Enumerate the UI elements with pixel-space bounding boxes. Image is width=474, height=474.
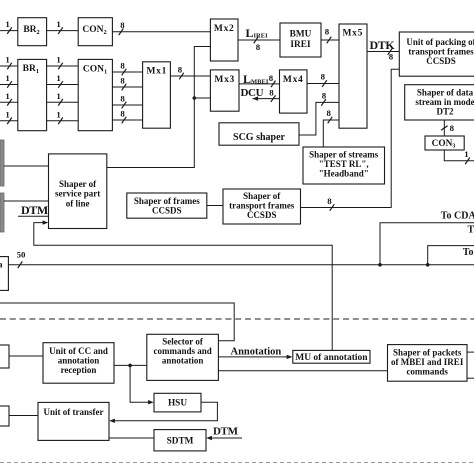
svg-text:service part: service part — [55, 189, 100, 199]
node bus junction 1 and wire To CDAU — [378, 211, 474, 267]
svg-text:CCSDS: CCSDS — [247, 210, 277, 220]
svg-text:Shaper of packets: Shaper of packets — [393, 347, 462, 357]
svg-text:8: 8 — [120, 94, 125, 104]
svg-text:Annotation: Annotation — [231, 346, 282, 357]
node junction to Mx3 — [193, 96, 211, 100]
wire selector to shaper of packets — [218, 370, 387, 372]
svg-text:commands: commands — [406, 366, 448, 376]
wire input 3 to BR1 — [0, 91, 18, 106]
svg-text:CON2: CON2 — [82, 25, 106, 36]
svg-text:8: 8 — [120, 61, 125, 71]
wire CON3 to right edge — [444, 149, 474, 164]
wire transport frames to unit of packing — [301, 69, 400, 211]
svg-text:of line: of line — [66, 198, 90, 208]
svg-text:LMBEI: LMBEI — [243, 72, 269, 86]
wire shaper of packets output 2 — [467, 377, 474, 379]
svg-text:stream in mode: stream in mode — [415, 97, 474, 107]
wire CON2 to Mx2 — [112, 20, 210, 35]
svg-text:DCU: DCU — [241, 87, 264, 99]
block BR2 — [18, 18, 47, 46]
svg-text:CCSDS: CCSDS — [152, 205, 182, 215]
svg-text:reception: reception — [61, 365, 97, 375]
wire SDTM to unit of transfer — [109, 437, 154, 439]
wire from left edge to selector — [0, 303, 234, 341]
connector bar lower — [0, 193, 4, 232]
svg-text:1: 1 — [5, 91, 9, 101]
wire upper bar to service shaper — [4, 165, 49, 167]
svg-text:IREI: IREI — [290, 40, 311, 50]
svg-text:1: 1 — [464, 149, 468, 159]
block shaper of packets of MBEI and IREI commands — [388, 345, 468, 382]
svg-text:commands and: commands and — [153, 346, 211, 356]
block cut-off left source — [0, 257, 8, 291]
svg-text:CCSDS: CCSDS — [426, 56, 456, 66]
svg-text:To CDAU: To CDAU — [441, 211, 474, 222]
block unit of CC and annotation reception — [43, 343, 114, 384]
wire Mx2 to BMU IREI, net L_IREI — [238, 26, 280, 52]
wire Mx4 to Mx5 — [307, 72, 339, 87]
block Mx4 — [280, 70, 308, 113]
wire feedback from MU of annotation to service shaper — [34, 220, 332, 350]
node bus junction 2 and wire To right — [426, 246, 474, 267]
wire input 1 to BR1 — [0, 55, 18, 70]
svg-text:annotation: annotation — [162, 356, 204, 366]
svg-text:Shaper of: Shaper of — [59, 179, 97, 189]
block cut-off left input A — [0, 345, 9, 368]
svg-text:8: 8 — [120, 76, 125, 86]
block SDTM — [154, 430, 206, 451]
wire 50-wide bus — [8, 250, 474, 269]
block SCG shaper — [219, 123, 299, 145]
svg-text:1: 1 — [5, 73, 9, 83]
svg-text:HSU: HSU — [168, 399, 187, 409]
node junction to HSU and wire — [128, 364, 153, 405]
svg-text:Mx5: Mx5 — [343, 28, 364, 38]
svg-text:Mx4: Mx4 — [283, 75, 304, 85]
wire DT2 to CON3 — [441, 120, 455, 136]
block Mx5 — [339, 24, 367, 128]
wire shaper of streams to Mx5 — [323, 108, 339, 147]
block shaper of transport frames CCSDS — [223, 189, 301, 224]
svg-text:Unit of transfer: Unit of transfer — [44, 407, 104, 417]
wire BR1 to CON1 line 1 — [47, 55, 79, 70]
block MU of annotation — [293, 350, 370, 363]
svg-text:1: 1 — [56, 55, 60, 65]
svg-text:8: 8 — [450, 123, 455, 133]
block selector of commands and annotation — [147, 334, 219, 380]
block shaper of data stream in mode DT2 — [405, 85, 474, 120]
wire input 2 to BR1 — [0, 73, 18, 88]
wire unit of CC to selector — [114, 364, 147, 366]
wire shaper of packets output 1 — [467, 351, 474, 353]
wire BR1 to CON1 line 2 — [47, 73, 79, 88]
block HSU — [154, 393, 201, 412]
svg-text:1: 1 — [56, 73, 60, 83]
svg-text:1: 1 — [5, 109, 9, 119]
wire left input A to unit of CC — [9, 355, 43, 357]
svg-text:annotation: annotation — [58, 355, 100, 365]
wire BR1 to CON1 line 4 — [47, 109, 79, 124]
svg-text:DTM: DTM — [21, 203, 48, 217]
wire bottom dashed separator — [0, 462, 474, 464]
wire CON1 to Mx1 line 3 — [112, 94, 142, 109]
block Mx1 — [143, 62, 171, 128]
svg-text:8: 8 — [120, 109, 125, 119]
svg-text:Unit of CC and: Unit of CC and — [49, 346, 108, 356]
wire Mx5 to unit of packing, net DTK — [367, 38, 399, 62]
svg-text:CON3: CON3 — [432, 139, 456, 150]
svg-text:8: 8 — [120, 20, 125, 30]
wire Mx1 to Mx3 — [170, 64, 210, 79]
svg-text:8: 8 — [269, 87, 274, 97]
wire BR1 to CON1 line 3 — [47, 91, 79, 106]
svg-text:BMU: BMU — [290, 29, 312, 39]
block Mx2 — [210, 19, 238, 61]
wire DTM input — [18, 203, 49, 217]
svg-text:1: 1 — [56, 91, 60, 101]
svg-text:DTM: DTM — [213, 426, 239, 438]
svg-text:1: 1 — [56, 19, 60, 29]
block cut-off left input B — [0, 406, 9, 426]
connector bar upper — [0, 140, 4, 186]
svg-text:SCG shaper: SCG shaper — [233, 132, 286, 143]
svg-text:CON1: CON1 — [83, 64, 107, 75]
svg-text:transport frames: transport frames — [408, 47, 474, 57]
wire service-shaper output to Mx2 — [107, 47, 211, 168]
svg-text:8: 8 — [269, 73, 274, 83]
wire input to BR2 — [0, 19, 18, 34]
svg-text:Mx1: Mx1 — [147, 67, 168, 77]
block shaper of streams — [303, 147, 385, 184]
block shaper of frames CCSDS — [127, 193, 207, 218]
svg-text:8: 8 — [326, 108, 331, 118]
svg-text:LIREI: LIREI — [246, 26, 269, 40]
svg-text:1: 1 — [5, 19, 9, 29]
wire dashed separator — [0, 318, 474, 320]
block CON3 — [425, 136, 464, 150]
svg-text:8: 8 — [178, 64, 183, 74]
svg-text:DT2: DT2 — [436, 107, 454, 117]
svg-text:1: 1 — [5, 55, 9, 65]
wire DCU output of Mx4 — [241, 87, 280, 102]
wire annotation to MU of annotation — [218, 346, 292, 359]
svg-text:"Headband": "Headband" — [319, 169, 369, 179]
svg-text:Selector of: Selector of — [162, 337, 204, 347]
svg-text:Mx3: Mx3 — [214, 75, 235, 85]
block CON1 — [78, 59, 112, 130]
svg-text:transport frames: transport frames — [229, 201, 295, 211]
svg-text:"TEST RL",: "TEST RL", — [319, 159, 369, 169]
wire Mx3 to Mx4, net L_MBEI — [239, 72, 280, 87]
svg-text:Shaper of: Shaper of — [243, 191, 281, 201]
wire input 4 to BR1 — [0, 109, 18, 124]
svg-text:DTK: DTK — [370, 38, 396, 52]
wire CON1 to Mx1 line 1 — [112, 61, 142, 76]
svg-text:8: 8 — [256, 42, 261, 52]
svg-text:8: 8 — [327, 196, 332, 206]
svg-text:To: To — [463, 247, 474, 258]
wire BR2 to CON2 — [47, 19, 79, 34]
svg-text:MU of annotation: MU of annotation — [295, 353, 368, 363]
wire BMU IREI to Mx5 — [321, 27, 339, 44]
svg-text:8: 8 — [321, 72, 326, 82]
wire left input B to unit of transfer — [9, 415, 38, 417]
block Mx3 — [210, 70, 239, 111]
wire SCG shaper to Mx5 — [299, 91, 339, 135]
svg-text:of MBEI and IREI: of MBEI and IREI — [391, 357, 464, 367]
svg-text:Shaper of streams: Shaper of streams — [309, 150, 379, 160]
svg-text:SDTM: SDTM — [167, 437, 194, 447]
block CON2 — [78, 18, 112, 46]
wire DTM input to SDTM — [206, 426, 242, 441]
svg-text:T: T — [468, 224, 474, 235]
wire CON1 to Mx1 line 4 — [112, 109, 142, 124]
svg-text:8: 8 — [325, 27, 330, 37]
svg-text:Mx2: Mx2 — [214, 24, 235, 34]
svg-text:8: 8 — [322, 91, 327, 101]
svg-text:Shaper of data: Shaper of data — [417, 88, 474, 98]
svg-text:50: 50 — [17, 250, 26, 260]
svg-text:Unit of packing of: Unit of packing of — [406, 37, 474, 47]
svg-text:8: 8 — [389, 52, 394, 62]
block unit of transfer — [38, 402, 109, 440]
block shaper of service part of line — [49, 154, 107, 229]
svg-text:Shaper of frames: Shaper of frames — [134, 196, 200, 206]
wire HSU to unit of transfer — [109, 402, 217, 423]
block BMU IREI — [280, 23, 321, 57]
wire lower bar to service shaper — [4, 200, 49, 202]
block BR1 — [18, 59, 47, 130]
svg-text:1: 1 — [56, 109, 60, 119]
block unit of packing of transport frames CCSDS — [399, 32, 474, 76]
wire frames to transport frames — [207, 205, 223, 207]
wire CON1 to Mx1 line 2 — [112, 76, 142, 91]
